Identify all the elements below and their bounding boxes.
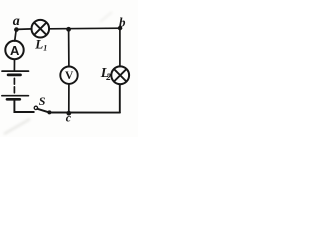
svg-text:S: S [39, 94, 46, 108]
node a [14, 27, 19, 32]
node b [118, 26, 122, 30]
battery cell 1 long plate [2, 70, 29, 72]
voltmeter V [60, 67, 77, 84]
svg-text:A: A [10, 43, 20, 58]
svg-text:b: b [119, 14, 126, 29]
node (junction above voltmeter) [66, 27, 71, 32]
wire L1 to b [49, 27, 121, 30]
wire junction to voltmeter [68, 29, 70, 66]
wire voltmeter to node c [68, 84, 70, 113]
faint paper smudge top-right [100, 12, 112, 22]
wire a to L1 [16, 28, 31, 31]
wire b down to L2 [119, 28, 121, 66]
svg-text:a: a [13, 14, 20, 29]
battery cell 2 short plate [7, 98, 20, 101]
wire switch to bottom-right corner [51, 112, 120, 114]
wire ammeter to battery [13, 59, 15, 70]
battery cell 1 short plate [8, 74, 20, 77]
battery cell 2 long plate [2, 95, 29, 97]
wire a down to ammeter [15, 30, 17, 41]
wire L2 to bottom wire [119, 84, 121, 112]
node c [66, 111, 71, 116]
svg-text:2: 2 [105, 73, 111, 83]
switch S [34, 106, 37, 109]
wire battery to switch [14, 100, 33, 112]
dashed wire (omitted cells) [13, 78, 15, 84]
svg-text:V: V [65, 70, 74, 82]
lamp L1 [32, 20, 50, 38]
faint paper smudge bottom-left [4, 119, 30, 134]
lamp L2 [111, 66, 129, 84]
ammeter A [5, 41, 23, 59]
